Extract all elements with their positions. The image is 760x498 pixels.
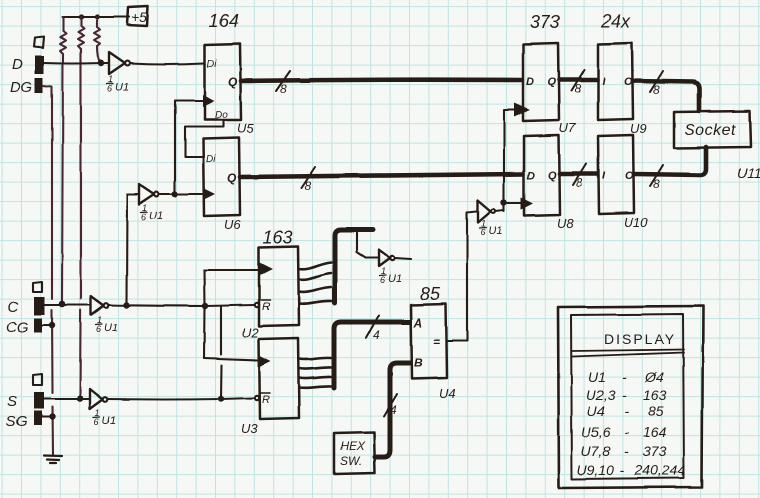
svg-text:U1: U1 — [488, 225, 502, 237]
svg-text:SG: SG — [6, 413, 28, 430]
clock arrow U6 — [203, 188, 215, 200]
svg-text:85: 85 — [648, 403, 664, 419]
svg-text:O: O — [625, 170, 634, 182]
node latch clock — [501, 199, 507, 205]
bus Q U6 to D U8 — [240, 174, 523, 177]
wire D to inverter — [44, 62, 108, 65]
wire U3 outputs to bus — [299, 358, 331, 388]
svg-text:=: = — [433, 335, 440, 349]
svg-text:R: R — [262, 394, 270, 406]
label 1/6 U1 (latch clock inverter) — [480, 218, 502, 237]
svg-text:Q: Q — [547, 76, 556, 88]
svg-text:U6: U6 — [224, 217, 241, 232]
counter U3 box — [259, 338, 299, 419]
shift register U5 box — [205, 44, 241, 120]
bus slash /8 (U7) — [571, 70, 584, 96]
resistor R3 — [94, 17, 100, 46]
svg-text:+5: +5 — [131, 9, 147, 25]
comparator U4 box — [411, 304, 447, 379]
svg-text:Socket: Socket — [684, 122, 736, 139]
wire +5 rail — [62, 16, 129, 18]
svg-text:U8: U8 — [557, 216, 574, 231]
connector pin DG — [35, 78, 43, 93]
clock arrow U8 — [521, 198, 533, 210]
svg-text:Di: Di — [207, 59, 217, 70]
svg-text:U4: U4 — [587, 403, 605, 419]
wire inverter6 out to U3 reset — [108, 398, 254, 400]
wire SG to ground rail — [42, 416, 52, 418]
wire latch clock up to U7 clock — [504, 110, 515, 211]
connector pin square above S — [33, 374, 42, 385]
wire inverter2 input down to C node — [127, 194, 139, 305]
node rail-R3 — [94, 14, 99, 19]
svg-text:U3: U3 — [241, 421, 258, 436]
wire U4 equal output to inverter5 input — [447, 211, 477, 341]
node notC vertical1 — [202, 303, 208, 309]
svg-text:Do: Do — [215, 110, 228, 121]
buffer U10 box — [598, 135, 634, 214]
label 1/6 U1 (clock inverter) — [141, 203, 163, 222]
svg-text:U7,8: U7,8 — [581, 443, 611, 459]
label 1/6 U1 (C inverter) — [96, 315, 118, 334]
node rail-R2 — [78, 14, 83, 19]
svg-text:SW.: SW. — [340, 454, 362, 468]
svg-text:Q: Q — [228, 75, 238, 89]
resistor R2 — [78, 17, 84, 49]
svg-text:6: 6 — [380, 275, 385, 285]
label 1/6 U1 (carry inverter) — [380, 266, 402, 285]
op-amp U1a inverter (D) — [109, 52, 130, 74]
svg-text:6: 6 — [480, 227, 485, 237]
bus Q U7 to I U9 — [559, 78, 597, 83]
svg-text:373: 373 — [643, 443, 667, 459]
wire U2 outputs to bus — [299, 262, 332, 304]
svg-text:U1: U1 — [115, 81, 129, 93]
hex switch box — [334, 432, 375, 474]
svg-text:8: 8 — [574, 82, 581, 96]
svg-text:Di: Di — [206, 154, 216, 165]
connector pin square above D — [34, 37, 44, 48]
display table inner box — [571, 314, 684, 479]
connector pin S — [34, 392, 44, 409]
table row U2,3 — [586, 387, 667, 403]
ground symbol — [44, 456, 62, 464]
wire R2 lead down to S line (gap at C line) — [80, 49, 81, 397]
svg-text:DISPLAY: DISPLAY — [604, 331, 676, 347]
svg-text:85: 85 — [420, 284, 441, 304]
svg-text:-: - — [622, 369, 627, 385]
wire to U2 clock — [204, 269, 258, 271]
svg-text:U1: U1 — [104, 322, 118, 334]
op-amp U1f inverter (carry) — [379, 250, 395, 266]
wire inverter3 out to U2 reset — [109, 305, 254, 306]
display table outer box — [558, 306, 703, 488]
svg-text:U1: U1 — [388, 273, 402, 285]
svg-text:D: D — [12, 56, 23, 73]
svg-text:CG: CG — [6, 319, 29, 336]
svg-text:-: - — [622, 387, 627, 403]
svg-text:U1: U1 — [102, 415, 116, 427]
bus slash /8 (U6) — [301, 167, 315, 193]
svg-text:6: 6 — [141, 212, 146, 222]
clock arrow U2 — [259, 262, 273, 276]
bus slash /4 (B) — [384, 394, 397, 417]
wire inverter4 output stub — [395, 258, 411, 259]
svg-text:24x: 24x — [600, 11, 631, 31]
svg-text:U9: U9 — [630, 121, 647, 136]
wire inverter1 out to U5 Di — [130, 63, 204, 64]
bus O U9 to socket (top) — [633, 81, 699, 111]
svg-text:Q: Q — [227, 171, 237, 185]
svg-text:D: D — [527, 170, 535, 182]
wire notS to reset rail vertical — [220, 307, 223, 399]
wire tap to inverter4 — [357, 232, 378, 258]
bus slash /4 (A) — [366, 315, 380, 342]
socket U11 box — [674, 111, 751, 148]
svg-text:4: 4 — [390, 403, 397, 417]
svg-text:240,244: 240,244 — [634, 462, 686, 478]
svg-text:8: 8 — [304, 179, 311, 193]
wire CG to ground rail — [42, 324, 52, 326]
node SG-ground — [49, 414, 55, 420]
svg-text:-: - — [624, 443, 629, 459]
svg-text:U4: U4 — [439, 386, 456, 401]
svg-text:164: 164 — [209, 11, 239, 31]
svg-text:B: B — [414, 356, 423, 370]
table row U1 — [588, 369, 664, 385]
wire DG to ground rail (gaps at C and S lines) — [43, 86, 53, 455]
wire inverter2 out to U6 clock — [159, 193, 202, 195]
svg-text:-: - — [620, 462, 625, 478]
table row U9,10 — [577, 462, 686, 478]
svg-text:C: C — [7, 299, 18, 316]
wire S to inverter6 — [44, 398, 89, 400]
connector pin C — [34, 297, 45, 315]
node notS vertical2 — [218, 396, 224, 402]
node D-R3 — [98, 60, 104, 66]
svg-text:S: S — [7, 393, 17, 410]
svg-text:U5: U5 — [237, 121, 254, 136]
clock arrow U7 — [514, 103, 530, 117]
bus Q U5 to D U7 — [241, 80, 522, 81]
svg-text:8: 8 — [653, 83, 660, 97]
svg-text:4: 4 — [373, 328, 380, 342]
svg-text:-: - — [624, 403, 629, 419]
svg-text:8: 8 — [653, 177, 660, 191]
power +5 box — [127, 6, 148, 26]
svg-text:6: 6 — [96, 324, 101, 334]
clock arrow U5 — [203, 95, 215, 107]
node S-R2 — [77, 395, 84, 402]
svg-text:D: D — [526, 76, 534, 88]
svg-text:163: 163 — [643, 387, 667, 403]
svg-text:164: 164 — [643, 424, 667, 440]
shift register U6 box — [203, 138, 240, 216]
wire counter clock vertical — [203, 270, 206, 358]
wire R3 lead down to D line — [97, 46, 100, 63]
svg-text:U1: U1 — [588, 369, 606, 385]
table row U4 — [587, 403, 664, 419]
svg-text:U1: U1 — [149, 210, 163, 222]
wire to U3 clock — [204, 358, 258, 360]
display header rule — [572, 350, 684, 357]
svg-text:Q: Q — [548, 170, 557, 182]
svg-text:U2: U2 — [242, 325, 259, 340]
bus U3 outputs to A of U4 — [334, 322, 410, 388]
svg-text:DG: DG — [10, 79, 33, 96]
connector pin SG — [34, 411, 42, 425]
node clock branch — [172, 191, 178, 197]
node C-R1 — [59, 301, 66, 308]
bus slash /8 (U5) — [276, 71, 290, 96]
wire C to inverter3 — [45, 304, 90, 306]
op-amp U1c inverter (C) — [91, 296, 109, 315]
svg-text:373: 373 — [530, 12, 560, 32]
table row U5,6 — [581, 424, 667, 440]
pin R-bar U2 — [255, 300, 270, 313]
table row U7,8 — [581, 443, 667, 459]
clock arrow U3 — [259, 355, 271, 367]
svg-text:U10: U10 — [624, 215, 649, 230]
counter U2 box — [259, 246, 299, 326]
bus slash /8 (U9) — [650, 71, 663, 97]
bus Q U8 to I U10 — [560, 172, 597, 177]
pin R-bar U3 — [255, 393, 270, 406]
svg-text:U5,6: U5,6 — [581, 424, 611, 440]
label 1/6 U1 (S inverter) — [94, 408, 116, 427]
svg-text:8: 8 — [280, 82, 287, 96]
op-amp U1e inverter (latch clock) — [478, 200, 496, 222]
svg-text:U11: U11 — [737, 165, 760, 181]
svg-text:163: 163 — [263, 227, 293, 247]
connector pin square above C — [33, 282, 42, 292]
resistor R1 — [60, 17, 66, 54]
wire R1 lead down to C line — [62, 54, 63, 303]
svg-text:8: 8 — [576, 176, 583, 190]
wire U5 clock from inverter2 node — [175, 101, 204, 194]
connector pin CG — [34, 318, 42, 332]
connector pin D — [35, 56, 44, 74]
svg-text:U9,10: U9,10 — [577, 462, 615, 478]
wire Do U5 to Di U6 — [185, 120, 223, 157]
latch U7 box — [523, 43, 559, 121]
svg-text:U7: U7 — [559, 120, 576, 135]
op-amp U1d inverter (S) — [90, 389, 108, 409]
bus U2 outputs up and right — [335, 230, 373, 303]
bus slash /8 (U8) — [573, 164, 586, 190]
svg-text:A: A — [413, 316, 423, 330]
svg-text:U2,3: U2,3 — [586, 387, 616, 403]
svg-text:6: 6 — [107, 83, 112, 93]
node CG-ground — [49, 322, 55, 328]
buffer U9 box — [598, 43, 633, 120]
svg-text:-: - — [624, 424, 629, 440]
op-amp U1b inverter (clock for 164s) — [139, 184, 159, 204]
svg-text:R: R — [262, 301, 270, 313]
wire inverter5 out to U8 clock — [496, 203, 524, 211]
latch U8 box — [524, 135, 560, 216]
bus O U10 to socket (bottom) — [634, 147, 706, 175]
bus hex switch to B of U4 — [375, 363, 410, 457]
svg-text:Ø4: Ø4 — [644, 369, 664, 385]
label 1/6 U1 (D inverter) — [107, 74, 129, 93]
svg-text:HEX: HEX — [340, 439, 366, 453]
svg-text:6: 6 — [94, 417, 99, 427]
node notC branch up — [123, 302, 129, 308]
bus slash /8 (U10) — [650, 165, 663, 191]
